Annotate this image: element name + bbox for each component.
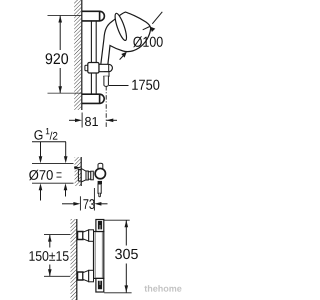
dimension 920 extension top [48,15,82,17]
hose nut [103,72,109,77]
label 81 [85,117,98,126]
dim 70 ext top [32,162,74,164]
bar top cap [96,220,104,232]
holder slider on rail [88,63,99,74]
hose tube [104,76,109,86]
union 1 cone [83,230,89,241]
union 1 collar [89,230,94,242]
union 1 nut [78,232,83,240]
top bracket [82,11,105,21]
dim 70 ext bottom [32,182,74,184]
valve side: escutcheon cone [81,169,86,183]
label D100 [133,36,163,47]
valve side: ring 3 [91,171,94,180]
union 2 cone [83,270,89,281]
dim 100 upper arrow [150,27,156,33]
valve side: knurl connector [98,181,102,184]
union 2 nut [78,272,83,280]
bar bottom handle mark [98,281,102,290]
arrow up 920 [58,16,62,23]
G1/2 leader right [65,142,67,157]
dim 150 ext top [44,234,70,236]
dim 305 ext bottom [104,292,131,294]
wire wall face bottom view [76,219,78,300]
hose axis dash-dot [105,86,107,127]
bottom bracket [82,94,104,103]
dimension 920 line [59,16,61,51]
dimension 920 extension bottom [48,92,82,94]
dim 100 lower arrow [121,52,127,58]
dim 81 line right [106,119,117,121]
bar inner highlight lines [94,232,96,278]
valve side: top knob [98,163,103,169]
holder release button [85,65,88,71]
dim 73 right arrow [94,202,101,206]
dim 81 left ext [81,113,83,128]
thermostat bar body top view [94,232,104,279]
dim 150 ext bottom [44,275,70,277]
label 150+-15 [30,251,69,261]
inlet arrow into wall [74,167,76,169]
label 920 [46,53,69,64]
bar bottom cap [96,278,104,292]
dim 70 up arrow left [39,183,43,190]
G1/2 leader left [40,142,42,157]
valve side: body rings [86,171,88,180]
G1/2 underline [32,141,66,143]
label 1750 leader [109,85,129,87]
rail [90,21,92,94]
dim 73 left ext [79,196,81,210]
holder arm [99,64,112,71]
label D70 [29,170,53,180]
label 305 [115,249,138,259]
wire wall face side view [80,157,82,186]
hand shower face ellipse [113,12,129,41]
label 73 [83,199,94,209]
dim 305 ext top [104,219,130,221]
watermark thehome [144,285,181,292]
dim 70 up arrow right [64,183,68,190]
wire wall face line top [81,0,83,110]
bar top handle mark [98,221,102,230]
valve side: in-wall rect [78,170,81,182]
wall top section [74,0,81,110]
dim 81 line left [69,119,75,121]
valve side: tube tip [99,193,101,197]
label 1750 [132,80,159,90]
valve side: outlet tube [98,184,101,193]
wall side view [75,157,82,186]
hand shower body outline [101,12,151,66]
label G 1/2 [34,130,42,140]
arrow down 920 [58,86,62,93]
union 2 collar [89,270,94,282]
valve side: handle circle [95,168,105,178]
dim 150 line [49,235,51,248]
dim 73 right ext [93,188,95,211]
dim 73 left arrow [62,203,74,205]
dim 305 line [125,220,127,245]
small pipe marks [57,172,62,174]
wall bottom view [71,219,77,300]
